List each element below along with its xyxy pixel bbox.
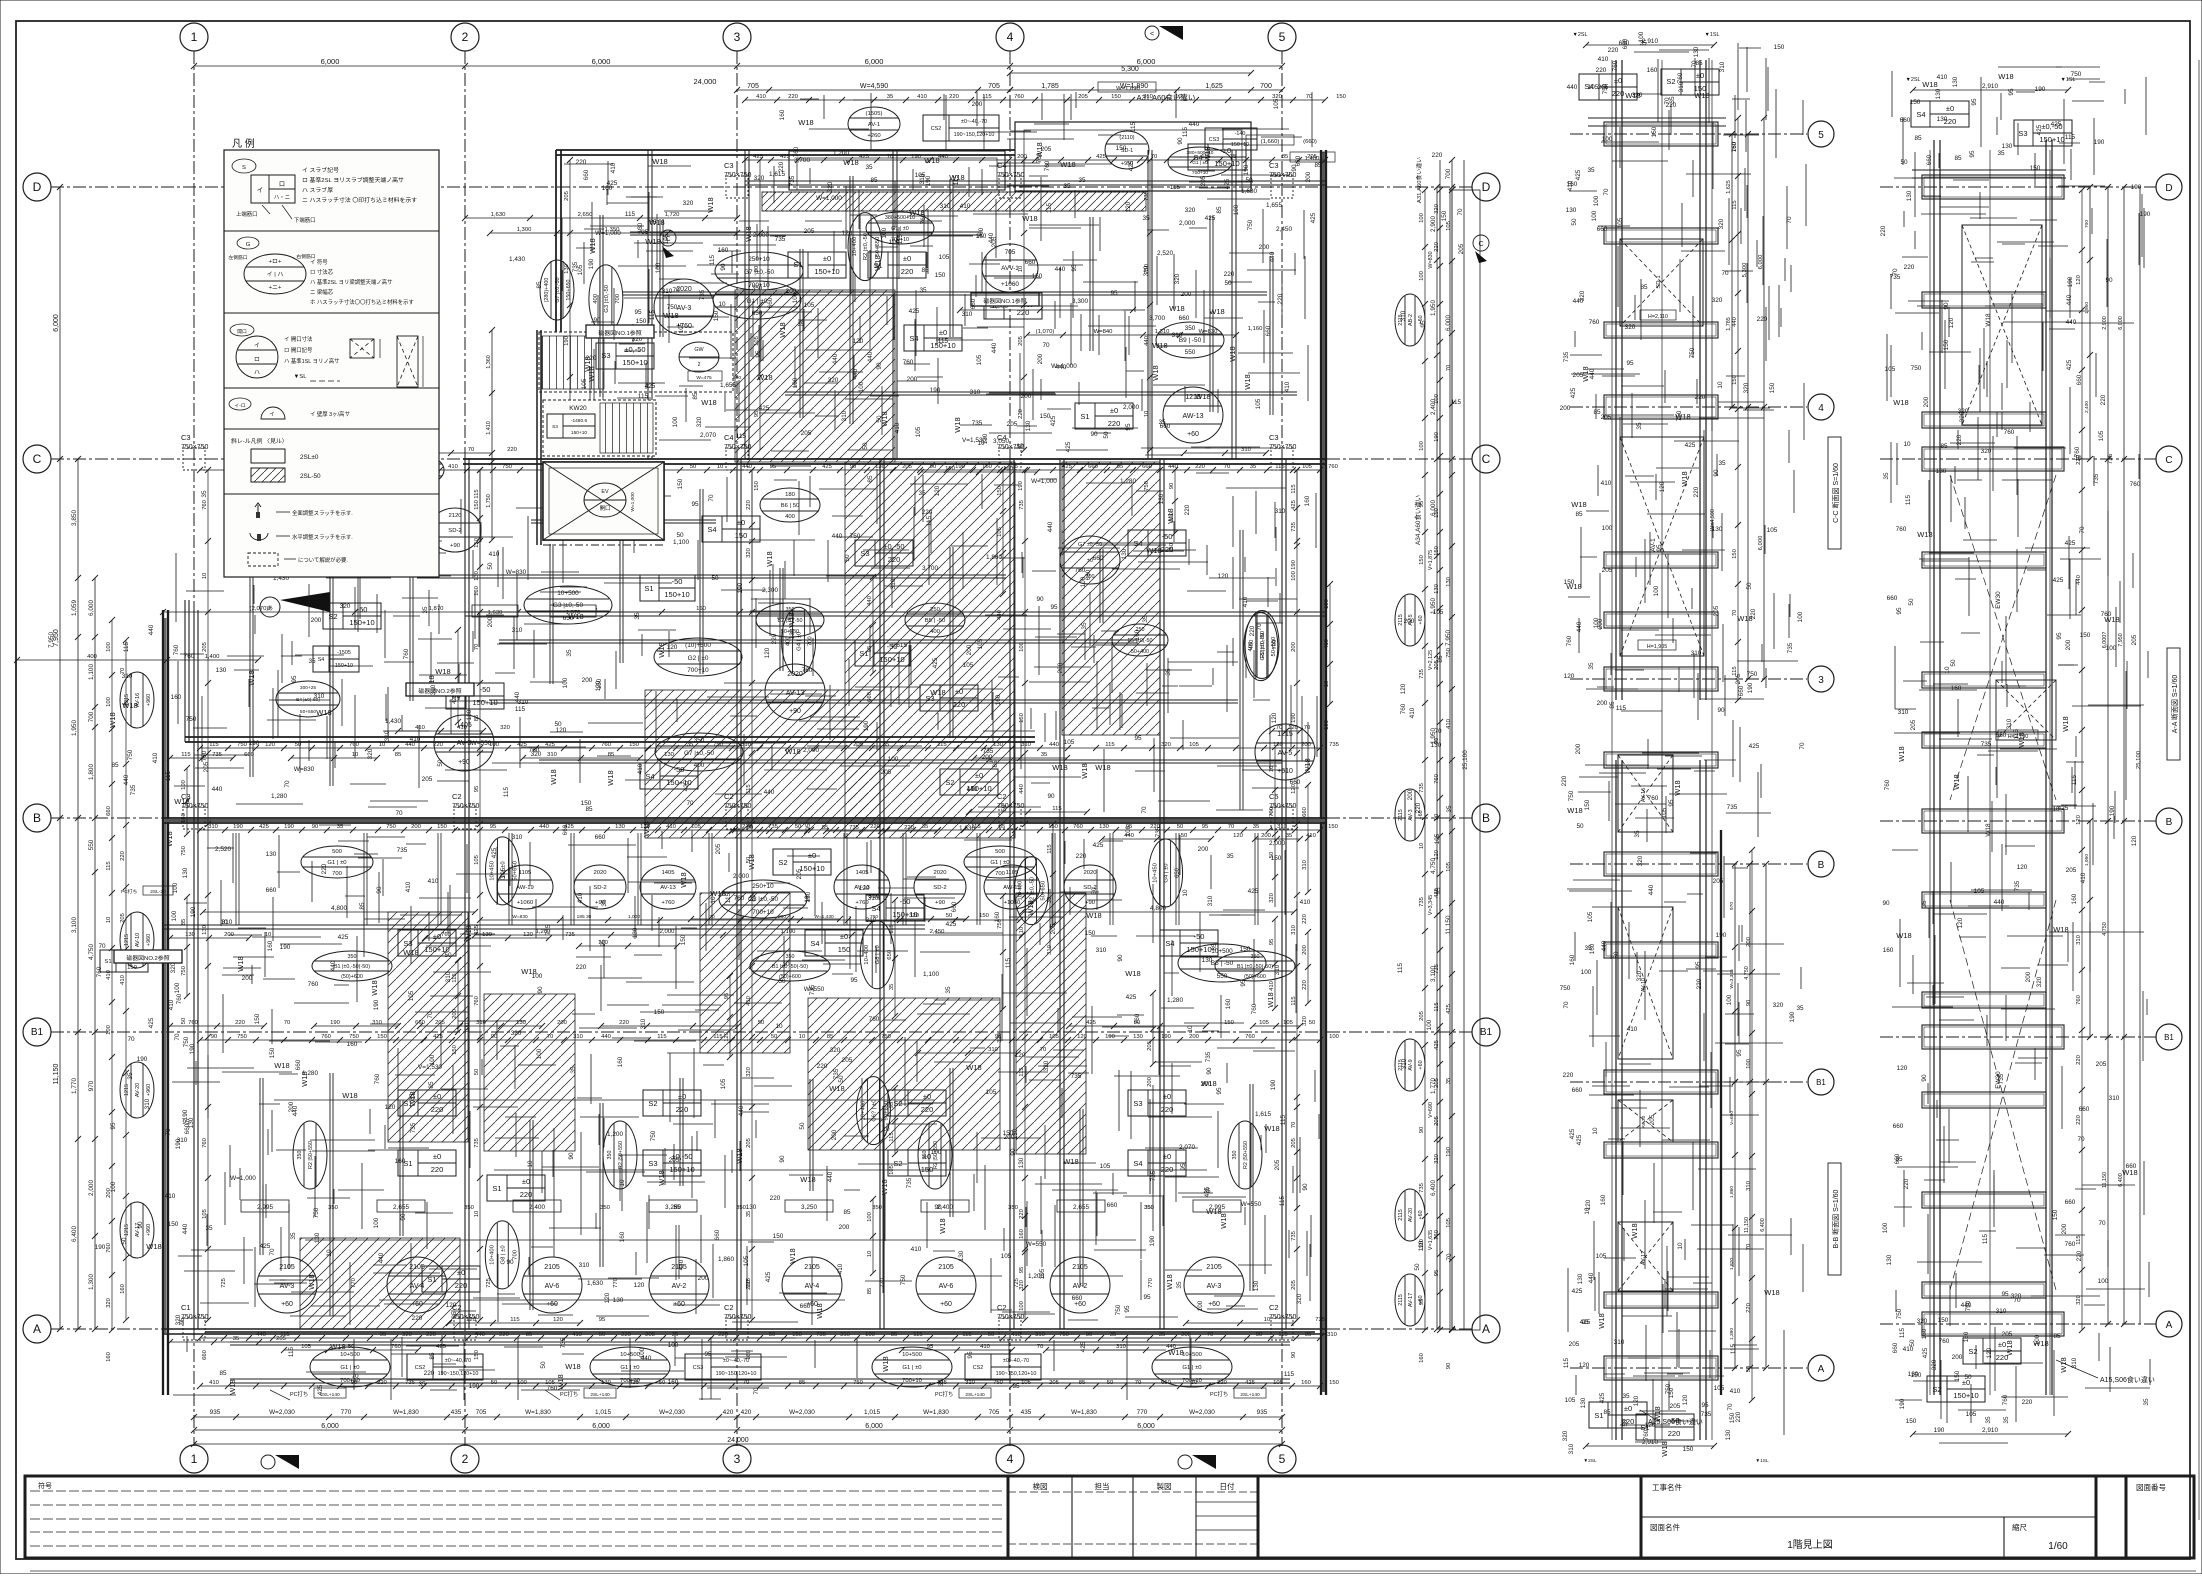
svg-text:200: 200	[1923, 396, 1930, 407]
svg-text:85: 85	[181, 918, 187, 925]
svg-text:440: 440	[475, 1332, 486, 1338]
svg-text:35: 35	[1895, 1156, 1903, 1163]
svg-text:W18: W18	[274, 1061, 289, 1070]
svg-text:1階見上図: 1階見上図	[1787, 1539, 1833, 1551]
svg-text:660: 660	[266, 887, 277, 894]
svg-text:320: 320	[106, 1297, 112, 1308]
svg-text:SD-2: SD-2	[593, 885, 606, 891]
svg-text:3,700: 3,700	[794, 157, 810, 164]
svg-text:W=830: W=830	[506, 569, 527, 576]
svg-text:310: 310	[965, 1380, 976, 1386]
svg-text:150: 150	[1584, 799, 1591, 810]
svg-text:1,000: 1,000	[628, 914, 640, 920]
svg-text:70: 70	[1228, 824, 1235, 830]
svg-text:350: 350	[297, 1151, 303, 1160]
svg-text:7,950: 7,950	[1445, 630, 1452, 646]
svg-text:イ | ハ: イ | ハ	[267, 272, 284, 278]
svg-text:▼SL: ▼SL	[293, 374, 307, 380]
svg-text:95: 95	[600, 939, 607, 947]
svg-text:100: 100	[1581, 969, 1592, 976]
svg-text:410: 410	[152, 752, 159, 763]
svg-text:ロ 寸法芯: ロ 寸法芯	[310, 268, 334, 276]
svg-text:190: 190	[1434, 431, 1440, 442]
svg-text:750: 750	[881, 1034, 892, 1040]
svg-text:+60: +60	[1418, 1295, 1424, 1304]
svg-text:±0: ±0	[522, 1177, 530, 1186]
svg-text:C3: C3	[1269, 433, 1279, 442]
svg-text:410: 410	[577, 892, 584, 903]
svg-text:115: 115	[938, 338, 949, 345]
svg-text:120: 120	[1897, 1065, 1908, 1072]
svg-text:1,390: 1,390	[1729, 1328, 1735, 1340]
svg-text:440: 440	[1019, 783, 1025, 794]
svg-text:2,000: 2,000	[88, 1180, 95, 1196]
svg-text:50: 50	[1414, 1263, 1421, 1271]
svg-text:160: 160	[1019, 1228, 1025, 1239]
svg-text:200: 200	[557, 1020, 568, 1026]
svg-text:95: 95	[1019, 1266, 1025, 1273]
svg-text:4,750: 4,750	[88, 944, 95, 960]
svg-text:70: 70	[1037, 1344, 1044, 1350]
svg-text:100: 100	[562, 677, 569, 688]
svg-text:W=2,030: W=2,030	[269, 1409, 295, 1416]
north block main outline D to C	[556, 149, 1015, 151]
svg-text:160: 160	[696, 606, 707, 612]
svg-text:700+10: 700+10	[752, 909, 774, 916]
svg-text:735: 735	[816, 1332, 827, 1338]
svg-text:190: 190	[190, 906, 197, 917]
D row wall segment	[745, 180, 1325, 182]
svg-text:35: 35	[945, 986, 952, 994]
svg-text:90: 90	[211, 1034, 218, 1040]
section flag below legend	[260, 597, 280, 617]
svg-text:35: 35	[1796, 1005, 1804, 1012]
svg-text:760: 760	[802, 667, 813, 674]
svg-text:310: 310	[2109, 1095, 2120, 1102]
svg-text:1,785: 1,785	[1041, 83, 1059, 90]
svg-text:150: 150	[437, 824, 448, 830]
svg-text:220: 220	[1108, 419, 1121, 428]
svg-text:750: 750	[127, 749, 134, 760]
svg-text:10: 10	[1324, 680, 1330, 687]
svg-text:220: 220	[770, 1195, 781, 1202]
boxed note labels	[586, 325, 654, 338]
svg-text:±0: ±0	[433, 1152, 441, 1161]
svg-text:70: 70	[127, 1036, 135, 1043]
svg-text:310: 310	[890, 578, 897, 589]
svg-text:B: B	[1818, 860, 1825, 871]
svg-text:70: 70	[174, 1033, 181, 1041]
svg-text:160: 160	[1304, 495, 1311, 506]
svg-text:220: 220	[1224, 271, 1235, 278]
svg-text:A15,S06食い違い: A15,S06食い違い	[2100, 1375, 2155, 1384]
svg-text:100: 100	[1593, 195, 1600, 206]
svg-text:35: 35	[1081, 622, 1088, 630]
svg-text:150: 150	[596, 678, 603, 689]
svg-text:130: 130	[466, 709, 473, 720]
svg-text:1,059: 1,059	[71, 600, 78, 616]
svg-text:W=3,345: W=3,345	[1729, 969, 1735, 989]
svg-text:440: 440	[182, 1223, 189, 1234]
svg-text:イ: イ	[257, 187, 263, 194]
svg-text:700+10: 700+10	[902, 1378, 923, 1384]
svg-text:735: 735	[1315, 1317, 1326, 1323]
svg-text:10: 10	[1016, 443, 1024, 450]
svg-text:660: 660	[1619, 40, 1630, 47]
svg-text:320: 320	[683, 200, 694, 207]
svg-text:205: 205	[564, 190, 570, 201]
svg-text:190: 190	[564, 335, 570, 346]
svg-text:120: 120	[1986, 1347, 1993, 1358]
svg-text:130: 130	[958, 1250, 965, 1261]
svg-text:+1060: +1060	[517, 900, 534, 906]
svg-text:100: 100	[888, 756, 899, 763]
svg-text:W18: W18	[568, 612, 583, 621]
svg-text:200: 200	[1305, 171, 1312, 182]
svg-text:105: 105	[1446, 861, 1452, 872]
svg-text:35: 35	[634, 612, 641, 620]
svg-text:95: 95	[1736, 1049, 1743, 1057]
svg-text:1,015: 1,015	[864, 1409, 880, 1416]
svg-text:750: 750	[900, 1274, 907, 1285]
GW room	[539, 332, 733, 392]
svg-text:115: 115	[913, 1332, 923, 1338]
svg-text:1,950: 1,950	[2084, 302, 2090, 314]
svg-text:760: 760	[308, 981, 319, 988]
svg-text:W18: W18	[108, 712, 117, 727]
svg-text:425: 425	[1080, 1341, 1087, 1352]
svg-text:660: 660	[1093, 555, 1104, 562]
svg-text:425: 425	[433, 1034, 444, 1040]
svg-text:+90: +90	[1085, 900, 1096, 906]
svg-text:150: 150	[2030, 165, 2041, 172]
svg-text:205: 205	[435, 1020, 446, 1026]
svg-text:100: 100	[1426, 1019, 1433, 1030]
svg-text:750×750: 750×750	[997, 172, 1025, 179]
svg-text:2020: 2020	[593, 870, 607, 876]
svg-text:C-C 断面図 S=1/60: C-C 断面図 S=1/60	[1831, 463, 1840, 523]
svg-text:735: 735	[983, 748, 994, 755]
svg-text:90: 90	[506, 1259, 514, 1266]
svg-text:425: 425	[629, 1380, 640, 1386]
svg-text:35: 35	[1622, 1393, 1630, 1400]
svg-text:ハ: ハ	[254, 370, 260, 376]
svg-text:115: 115	[649, 309, 656, 320]
svg-text:220: 220	[424, 1370, 435, 1377]
svg-text:115: 115	[713, 1034, 723, 1040]
svg-text:10: 10	[799, 1034, 806, 1040]
svg-text:90: 90	[1117, 954, 1124, 962]
svg-text:205: 205	[1078, 94, 1089, 100]
svg-text:425: 425	[1922, 1347, 1929, 1358]
svg-text:205: 205	[202, 641, 208, 652]
svg-text:760: 760	[106, 1242, 112, 1253]
svg-text:205: 205	[645, 1332, 656, 1338]
svg-text:50: 50	[1181, 833, 1188, 839]
svg-text:310: 310	[1327, 1332, 1338, 1338]
svg-text:160: 160	[602, 185, 613, 192]
svg-text:PC打ち: PC打ち	[935, 1390, 953, 1398]
svg-text:115: 115	[625, 211, 636, 218]
svg-text:CS3: CS3	[1209, 137, 1220, 143]
svg-text:35: 35	[1176, 1281, 1183, 1289]
svg-text:310: 310	[1207, 895, 1214, 906]
svg-text:35: 35	[290, 1232, 297, 1240]
svg-text:35: 35	[1883, 472, 1890, 480]
svg-text:770: 770	[341, 1409, 352, 1416]
svg-text:V=1,530: V=1,530	[418, 1064, 442, 1071]
svg-text:190: 190	[1105, 1034, 1116, 1040]
svg-text:100: 100	[1746, 1058, 1752, 1069]
svg-text:115: 115	[106, 861, 112, 871]
svg-text:735: 735	[405, 1380, 416, 1386]
svg-text:200: 200	[487, 616, 494, 627]
svg-text:115: 115	[1170, 184, 1181, 191]
svg-text:10: 10	[804, 895, 811, 903]
svg-text:105: 105	[691, 824, 702, 830]
svg-text:1,820: 1,820	[1729, 1258, 1735, 1270]
svg-text:150: 150	[1910, 99, 1921, 106]
svg-text:660: 660	[1290, 779, 1301, 786]
svg-text:205: 205	[1018, 335, 1024, 346]
svg-text:35: 35	[1669, 96, 1676, 104]
svg-text:760: 760	[601, 742, 612, 748]
svg-text:W18: W18	[1764, 1288, 1779, 1297]
svg-text:310: 310	[445, 971, 452, 982]
svg-text:50: 50	[121, 1237, 128, 1245]
svg-text:70: 70	[1799, 742, 1806, 750]
svg-text:50: 50	[1622, 1419, 1629, 1427]
svg-text:320: 320	[1632, 92, 1643, 99]
svg-text:H=2,110: H=2,110	[1648, 314, 1668, 320]
svg-text:▼2SL: ▼2SL	[1583, 1458, 1597, 1464]
svg-text:85: 85	[843, 1209, 851, 1216]
svg-text:205: 205	[1713, 878, 1724, 885]
svg-text:425: 425	[1050, 415, 1057, 426]
svg-text:150+10: 150+10	[1953, 1391, 1978, 1400]
svg-text:100: 100	[464, 1022, 471, 1033]
svg-text:130: 130	[1937, 116, 1948, 123]
svg-text:50: 50	[181, 1017, 187, 1024]
svg-text:440: 440	[827, 1171, 834, 1182]
svg-text:W18: W18	[652, 157, 667, 166]
svg-text:AV-5: AV-5	[1278, 750, 1293, 757]
svg-text:130: 130	[632, 927, 639, 938]
svg-text:660: 660	[2065, 1199, 2076, 1206]
svg-text:105: 105	[1049, 1034, 1060, 1040]
svg-text:550: 550	[1185, 349, 1196, 356]
svg-text:105: 105	[408, 990, 415, 1001]
svg-text:160: 160	[746, 1349, 752, 1360]
svg-text:85: 85	[692, 392, 699, 400]
svg-text:935: 935	[210, 1409, 221, 1416]
svg-text:425: 425	[1570, 387, 1577, 398]
svg-text:425: 425	[1096, 154, 1107, 160]
svg-text:10+400: 10+400	[489, 1244, 495, 1265]
svg-text:120: 120	[842, 230, 853, 237]
svg-text:▼2SL: ▼2SL	[1573, 32, 1588, 38]
svg-text:320: 320	[1174, 273, 1181, 284]
svg-text:190~150,120+10: 190~150,120+10	[996, 1371, 1037, 1377]
svg-text:(50)+600: (50)+600	[1244, 974, 1266, 980]
svg-text:310: 310	[841, 410, 848, 421]
svg-text:205: 205	[2066, 867, 2077, 874]
svg-text:220: 220	[1668, 1429, 1681, 1438]
svg-text:205: 205	[422, 776, 433, 783]
svg-text:410: 410	[1284, 381, 1291, 392]
svg-text:150: 150	[1683, 1446, 1694, 1453]
svg-text:130: 130	[1886, 1254, 1893, 1265]
svg-text:85: 85	[1640, 284, 1648, 291]
svg-text:320: 320	[830, 1047, 841, 1054]
svg-text:440: 440	[742, 464, 753, 470]
svg-text:35: 35	[1587, 167, 1595, 174]
svg-text:1,280: 1,280	[1120, 478, 1136, 485]
svg-text:320: 320	[746, 547, 752, 558]
svg-text:(1,660): (1,660)	[1261, 139, 1280, 145]
svg-text:160: 160	[171, 694, 182, 701]
svg-text:700: 700	[88, 711, 95, 722]
svg-text:W18: W18	[966, 1063, 981, 1072]
svg-text:420: 420	[741, 1409, 752, 1416]
svg-text:70: 70	[351, 1373, 359, 1380]
svg-text:410: 410	[1567, 180, 1574, 191]
svg-text:440: 440	[2066, 294, 2073, 305]
svg-text:S1: S1	[492, 1184, 501, 1193]
svg-text:425: 425	[1685, 442, 1696, 449]
svg-text:205: 205	[1200, 175, 1207, 186]
svg-text:425: 425	[338, 934, 349, 941]
svg-text:660: 660	[184, 1123, 191, 1134]
svg-text:50: 50	[1309, 1020, 1316, 1026]
svg-text:35: 35	[922, 824, 929, 830]
svg-text:130: 130	[1133, 1034, 1144, 1040]
svg-text:W18: W18	[1567, 806, 1582, 815]
svg-text:100: 100	[1882, 1222, 1889, 1233]
svg-text:70: 70	[1276, 725, 1283, 731]
strip1 top dim	[1586, 44, 1714, 46]
svg-text:160: 160	[994, 911, 1001, 922]
svg-text:W18: W18	[122, 701, 137, 710]
svg-text:115: 115	[1278, 1332, 1288, 1338]
svg-text:R2 |50+550: R2 |50+550	[308, 1141, 314, 1169]
svg-text:50: 50	[676, 532, 684, 539]
svg-text:<: <	[1150, 31, 1154, 38]
svg-text:935: 935	[1257, 1409, 1268, 1416]
svg-text:W18: W18	[1985, 313, 1992, 327]
svg-text:220: 220	[1434, 241, 1440, 252]
svg-text:全面調整スラッチを示す.: 全面調整スラッチを示す.	[292, 509, 353, 517]
interior partitions B1-A	[259, 1078, 261, 1255]
svg-text:150+650: 150+650	[566, 279, 572, 300]
svg-text:ニ 梁幅芯: ニ 梁幅芯	[310, 288, 334, 296]
svg-text:W=1,830: W=1,830	[1071, 1409, 1097, 1416]
svg-text:420: 420	[723, 1409, 734, 1416]
svg-text:2,400: 2,400	[2084, 401, 2090, 413]
svg-text:200: 200	[907, 376, 918, 383]
svg-text:410: 410	[911, 1246, 922, 1253]
svg-text:50: 50	[487, 562, 494, 570]
svg-text:760: 760	[2076, 994, 2082, 1005]
svg-text:150: 150	[654, 1009, 665, 1016]
svg-text:W=550: W=550	[1241, 1201, 1262, 1208]
svg-text:750: 750	[181, 965, 187, 976]
svg-text:105: 105	[1273, 1380, 1284, 1386]
svg-text:750: 750	[237, 1034, 248, 1040]
left dims of appendix	[491, 330, 493, 540]
svg-text:205: 205	[1419, 1010, 1425, 1021]
svg-text:W=550: W=550	[471, 740, 492, 747]
svg-text:3,050: 3,050	[993, 438, 1009, 445]
svg-text:700+10: 700+10	[687, 667, 709, 674]
svg-text:35: 35	[233, 1336, 240, 1342]
svg-text:水平調整スラッチを示す.: 水平調整スラッチを示す.	[292, 533, 353, 541]
svg-text:150+10: 150+10	[799, 864, 824, 873]
svg-text:150: 150	[1434, 545, 1440, 556]
svg-text:95: 95	[1896, 607, 1903, 615]
svg-text:310: 310	[2076, 934, 2082, 945]
svg-text:105: 105	[2098, 430, 2105, 441]
svg-text:190: 190	[2067, 276, 2074, 287]
svg-text:120: 120	[853, 338, 864, 345]
svg-text:310: 310	[314, 693, 325, 700]
svg-text:120: 120	[1682, 1394, 1689, 1405]
svg-text:760: 760	[1073, 824, 1084, 830]
svg-text:425: 425	[1576, 1134, 1583, 1145]
svg-text:85: 85	[1914, 135, 1922, 142]
svg-text:205: 205	[804, 228, 815, 235]
svg-text:115: 115	[1046, 202, 1053, 213]
svg-text:W18: W18	[1566, 582, 1581, 591]
svg-text:W18: W18	[435, 667, 450, 676]
svg-text:320: 320	[1743, 382, 1750, 393]
svg-text:200: 200	[1259, 244, 1270, 251]
svg-text:磁器図NO.2参照: 磁器図NO.2参照	[126, 954, 169, 962]
svg-text:G3 |±0,-50: G3 |±0,-50	[553, 602, 583, 609]
svg-text:C4: C4	[724, 433, 734, 442]
svg-text:205: 205	[1598, 84, 1609, 91]
svg-text:105: 105	[1255, 398, 1262, 409]
svg-text:205: 205	[1050, 923, 1057, 934]
svg-text:190: 190	[930, 387, 941, 394]
svg-text:115: 115	[889, 924, 895, 934]
svg-text:S4: S4	[1165, 939, 1174, 948]
svg-text:410: 410	[1937, 74, 1948, 81]
svg-text:AV-20: AV-20	[135, 1083, 141, 1097]
svg-text:70: 70	[1141, 806, 1148, 814]
svg-text:2: 2	[698, 362, 701, 368]
svg-text:1,860: 1,860	[1729, 1186, 1735, 1198]
svg-text:W=2,030: W=2,030	[659, 1409, 685, 1416]
svg-text:95: 95	[1305, 1332, 1312, 1338]
top hatch strip below D	[762, 192, 1146, 211]
svg-text:200: 200	[966, 644, 973, 655]
svg-text:35: 35	[865, 164, 873, 171]
svg-text:4: 4	[1818, 403, 1824, 414]
svg-text:担当: 担当	[1095, 1481, 1110, 1491]
svg-text:1,200: 1,200	[1028, 1273, 1044, 1280]
svg-text:A: A	[33, 1322, 41, 1336]
svg-text:425: 425	[645, 383, 656, 390]
svg-text:105: 105	[1100, 1163, 1111, 1170]
svg-text:220: 220	[1561, 775, 1568, 786]
svg-text:735: 735	[789, 175, 796, 186]
C-C label	[1828, 437, 1841, 549]
svg-text:160: 160	[1225, 998, 1232, 1009]
svg-text:6,400: 6,400	[71, 1226, 78, 1242]
svg-text:AV-6: AV-6	[545, 1283, 560, 1290]
svg-text:R2 |50+550: R2 |50+550	[1243, 1141, 1249, 1169]
